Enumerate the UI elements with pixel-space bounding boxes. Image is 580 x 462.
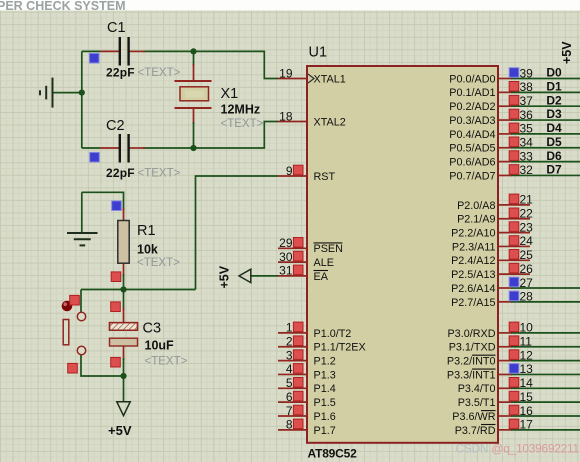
svg-text:24: 24: [520, 234, 534, 248]
svg-text:P3.4/T0: P3.4/T0: [458, 383, 496, 395]
svg-text:P1.6: P1.6: [314, 411, 336, 423]
wire R1 bottom pin: [123, 263, 125, 290]
svg-text:ALE: ALE: [314, 257, 334, 269]
pin 15 P3.5/T1 (right): [458, 390, 580, 409]
svg-text:6: 6: [286, 390, 293, 404]
node marker blue (C1): [89, 53, 99, 63]
svg-text:P1.7: P1.7: [314, 425, 336, 437]
svg-text:21: 21: [520, 193, 534, 207]
svg-text:P1.5: P1.5: [314, 397, 336, 409]
value AT89C52: [308, 447, 358, 461]
svg-text:33: 33: [520, 149, 534, 163]
pin 26 P2.5/A13 (right): [451, 262, 533, 281]
svg-text:P0.1/AD1: P0.1/AD1: [449, 87, 495, 99]
clock caret XTAL1: [308, 74, 314, 83]
pin 35 P0.4/AD4 (right): [449, 121, 580, 141]
svg-text:P1.4: P1.4: [314, 383, 336, 395]
svg-text:P3.1/TXD: P3.1/TXD: [449, 342, 496, 354]
node marker red (C3 top): [111, 302, 121, 312]
svg-text:P3.6/WR: P3.6/WR: [452, 411, 495, 423]
svg-text:23: 23: [520, 220, 534, 234]
label C3: [143, 321, 162, 337]
wire EA to +5V arrow: [251, 275, 278, 277]
label X1: [221, 86, 239, 102]
svg-text:36: 36: [520, 108, 534, 122]
svg-text:15: 15: [520, 390, 534, 404]
svg-text:31: 31: [279, 264, 293, 278]
svg-text:D7: D7: [546, 163, 562, 177]
capacitor C2: [100, 134, 145, 163]
pin 12 P3.2/INT0 (right): [447, 348, 580, 367]
svg-text:39: 39: [520, 66, 534, 80]
pin 3 P1.2 (left): [278, 348, 336, 367]
label U1: [309, 45, 328, 61]
svg-text:10uF: 10uF: [145, 339, 175, 353]
svg-text:34: 34: [520, 136, 534, 150]
node marker red (R1 bottom): [111, 272, 121, 282]
resistor R1: [118, 221, 129, 264]
capacitor C1: [100, 37, 145, 66]
svg-text:12: 12: [520, 348, 534, 362]
svg-text:10k: 10k: [137, 243, 158, 257]
value 12MHz: [221, 103, 264, 131]
pin 29 PSEN (left): [278, 236, 343, 255]
label R1: [137, 223, 156, 239]
svg-text:14: 14: [520, 376, 534, 390]
svg-text:25: 25: [520, 248, 534, 262]
svg-text:P1.3: P1.3: [314, 369, 336, 381]
wire button top lead: [80, 290, 82, 313]
value 10uF: [145, 339, 188, 368]
svg-text:XTAL1: XTAL1: [314, 73, 346, 85]
svg-text:P2.6/A14: P2.6/A14: [451, 283, 495, 295]
pin 4 P1.3 (left): [278, 362, 336, 381]
pin 32 P0.7/AD7 (right): [449, 163, 580, 183]
pin 39 P0.0/AD0 (right): [449, 66, 580, 86]
svg-text:P0.7/AD7: P0.7/AD7: [449, 170, 495, 182]
node marker red (button top): [70, 295, 80, 305]
svg-text:<TEXT>: <TEXT>: [221, 118, 264, 130]
svg-text:22pF: 22pF: [106, 166, 135, 180]
svg-text:P2.2/A10: P2.2/A10: [451, 228, 495, 240]
op chip U1 AT89C52 body: [307, 66, 498, 443]
label C2: [106, 118, 125, 134]
pin 33 P0.6/AD6 (right): [449, 149, 580, 169]
svg-text:D1: D1: [546, 80, 562, 94]
svg-text:16: 16: [520, 404, 534, 418]
svg-text:28: 28: [520, 290, 534, 304]
wire C1 row to XTAL1 (net X1A): [82, 51, 278, 78]
svg-text:P0.6/AD6: P0.6/AD6: [449, 157, 495, 169]
svg-text:38: 38: [520, 80, 534, 94]
wire C2 row to XTAL2 (net X1B): [82, 122, 278, 149]
pin 8 P1.7 (left): [278, 418, 336, 437]
svg-text:<TEXT>: <TEXT>: [138, 67, 181, 79]
svg-text:D0: D0: [546, 66, 562, 80]
svg-text:10: 10: [520, 321, 534, 335]
svg-text:29: 29: [279, 236, 293, 250]
pin 37 P0.2/AD2 (right): [449, 93, 580, 113]
svg-text:C2: C2: [106, 118, 125, 134]
pin 14 P3.4/T0 (right): [458, 376, 580, 395]
pin 22 P2.1/A9 (right): [457, 207, 533, 226]
svg-text:11: 11: [520, 335, 533, 349]
svg-text:22: 22: [520, 207, 534, 221]
svg-text:D6: D6: [546, 149, 562, 163]
svg-text:P0.2/AD2: P0.2/AD2: [449, 101, 495, 113]
pin 6 P1.5 (left): [278, 390, 336, 409]
svg-text:P2.1/A9: P2.1/A9: [457, 214, 495, 226]
pin 31 EA (left): [278, 264, 329, 283]
pin 2 P1.1/T2EX (left): [278, 335, 366, 354]
svg-text:P0.4/AD4: P0.4/AD4: [449, 129, 495, 141]
svg-text:17: 17: [520, 418, 534, 432]
value 10k: [137, 243, 180, 270]
svg-text:C3: C3: [143, 321, 162, 337]
title text (clipped): [0, 0, 126, 13]
svg-text:P0.0/AD0: P0.0/AD0: [449, 73, 495, 85]
svg-text:P2.0/A8: P2.0/A8: [457, 200, 495, 212]
svg-text:19: 19: [279, 66, 293, 80]
svg-text:PSEN: PSEN: [314, 243, 343, 255]
svg-text:2: 2: [286, 335, 293, 349]
svg-text:RST: RST: [314, 171, 336, 183]
svg-text:<TEXT>: <TEXT>: [137, 257, 180, 269]
wire R1 top pin: [123, 208, 125, 221]
node marker blue (C2): [90, 152, 100, 162]
pin 11 P3.1/TXD (right): [449, 335, 580, 354]
node junction dot left ground: [79, 90, 85, 96]
wire ground branch to R1 top: [82, 192, 124, 210]
pin 24 P2.3/A11 (right): [452, 234, 533, 253]
svg-text:18: 18: [279, 109, 293, 123]
node marker red (C3 bottom): [111, 357, 121, 367]
node junction dot crystal bottom: [190, 145, 196, 151]
wire to +5V down arrow: [123, 376, 125, 402]
node junction dot crystal top: [190, 48, 196, 54]
pin 9 RST (left): [278, 164, 335, 183]
svg-text:P3.3/INT1: P3.3/INT1: [447, 369, 496, 381]
svg-text:U1: U1: [309, 45, 328, 61]
pin 1 P1.0/T2 (left): [278, 321, 351, 340]
svg-text:D3: D3: [546, 107, 562, 121]
node junction dot R1 bottom: [120, 286, 126, 292]
svg-text:CSDN @q_1039692211: CSDN @q_1039692211: [456, 442, 580, 456]
value 22pF (C1): [106, 66, 181, 80]
power +5V (bottom arrow): [108, 402, 132, 438]
wire C3 bottom lead: [123, 346, 125, 376]
svg-text:32: 32: [520, 163, 534, 177]
svg-text:D2: D2: [546, 93, 562, 107]
ground (below R1 branch): [67, 233, 98, 245]
svg-text:7: 7: [286, 404, 293, 418]
pin 5 P1.4 (left): [278, 376, 336, 395]
svg-text:<TEXT>: <TEXT>: [138, 168, 181, 180]
pin 16 P3.6/WR (right): [452, 404, 580, 423]
svg-text:P3.7/RD: P3.7/RD: [455, 425, 496, 437]
push button: [62, 301, 86, 355]
pin 27 P2.6/A14 (right): [451, 276, 580, 295]
capacitor C3 (electrolytic): [110, 323, 138, 346]
svg-text:P2.4/A12: P2.4/A12: [451, 255, 495, 267]
pin 7 P1.6 (left): [278, 404, 336, 423]
power +5V (top right): [560, 41, 574, 64]
svg-text:37: 37: [520, 94, 534, 108]
svg-text:P3.2/INT0: P3.2/INT0: [447, 356, 496, 368]
svg-text:8: 8: [286, 418, 293, 432]
pin 28 P2.7/A15 (right): [451, 290, 580, 309]
svg-text:P0.5/AD5: P0.5/AD5: [449, 143, 495, 155]
power +5V (EA arrow): [218, 265, 251, 288]
svg-text:22pF: 22pF: [106, 66, 135, 80]
pin 30 ALE (left): [278, 250, 334, 269]
svg-text:D5: D5: [546, 135, 562, 149]
svg-text:27: 27: [520, 276, 534, 290]
svg-text:XTAL2: XTAL2: [314, 116, 346, 128]
svg-text:12MHz: 12MHz: [221, 103, 261, 117]
svg-text:1: 1: [286, 321, 293, 335]
svg-text:4: 4: [286, 362, 293, 376]
wire button bottom lead: [81, 355, 124, 376]
wire C1 left vertical to C2: [81, 51, 83, 148]
svg-text:R1: R1: [137, 223, 156, 239]
pin 17 P3.7/RD (right): [455, 418, 580, 437]
pin 21 P2.0/A8 (right): [457, 193, 533, 212]
wire RST row horizontal: [81, 289, 196, 291]
pin 18 XTAL2 (left): [278, 109, 346, 128]
svg-text:13: 13: [520, 362, 534, 376]
svg-text:P1.2: P1.2: [314, 356, 336, 368]
label C1: [107, 20, 126, 36]
svg-text:3: 3: [286, 348, 293, 362]
svg-text:EA: EA: [314, 271, 329, 283]
svg-text:P2.3/A11: P2.3/A11: [452, 241, 496, 253]
watermark: [456, 442, 580, 456]
ground (left, rotated): [40, 78, 53, 108]
svg-text:5: 5: [286, 376, 293, 390]
svg-text:P0.3/AD3: P0.3/AD3: [449, 115, 495, 127]
pin 23 P2.2/A10 (right): [451, 220, 533, 239]
pin 36 P0.3/AD3 (right): [449, 107, 580, 127]
wire C3 top lead: [123, 290, 125, 323]
svg-text:+5V: +5V: [560, 41, 574, 64]
svg-text:P1.0/T2: P1.0/T2: [314, 328, 352, 340]
wire RST net: [196, 176, 279, 290]
svg-text:P2.7/A15: P2.7/A15: [451, 297, 495, 309]
svg-text:9: 9: [286, 164, 293, 178]
pin 19 XTAL1 (left): [278, 66, 346, 85]
value 22pF (C2): [106, 166, 181, 180]
pin 10 P3.0/RXD (right): [447, 321, 580, 340]
svg-text:AT89C52: AT89C52: [308, 447, 358, 461]
pin 34 P0.5/AD5 (right): [449, 135, 580, 155]
svg-text:P1.1/T2EX: P1.1/T2EX: [314, 342, 366, 354]
wire to bottom ground symbol: [81, 192, 83, 233]
node junction dot C3 bottom: [120, 373, 126, 379]
svg-text:P3.0/RXD: P3.0/RXD: [447, 328, 495, 340]
svg-text:26: 26: [520, 262, 534, 276]
svg-text:30: 30: [279, 250, 293, 264]
node marker red (button bottom): [68, 363, 78, 373]
svg-text:35: 35: [520, 122, 534, 136]
wire ground stub left: [53, 92, 82, 94]
svg-text:X1: X1: [221, 86, 239, 102]
svg-text:PER CHECK SYSTEM: PER CHECK SYSTEM: [0, 0, 126, 13]
wire crystal top lead: [193, 51, 195, 80]
svg-text:C1: C1: [107, 20, 126, 36]
crystal X1: [175, 81, 212, 108]
pin 13 P3.3/INT1 (right): [447, 362, 580, 381]
svg-text:+5V: +5V: [218, 265, 232, 288]
svg-text:<TEXT>: <TEXT>: [145, 356, 188, 368]
svg-text:D4: D4: [546, 121, 562, 135]
svg-text:P3.5/T1: P3.5/T1: [458, 397, 496, 409]
svg-text:P2.5/A13: P2.5/A13: [451, 269, 495, 281]
node marker blue (R1 top): [112, 201, 122, 211]
pin 38 P0.1/AD1 (right): [449, 80, 580, 100]
svg-text:+5V: +5V: [108, 423, 132, 438]
wire crystal bottom lead: [193, 108, 195, 148]
pin 25 P2.4/A12 (right): [451, 248, 533, 267]
